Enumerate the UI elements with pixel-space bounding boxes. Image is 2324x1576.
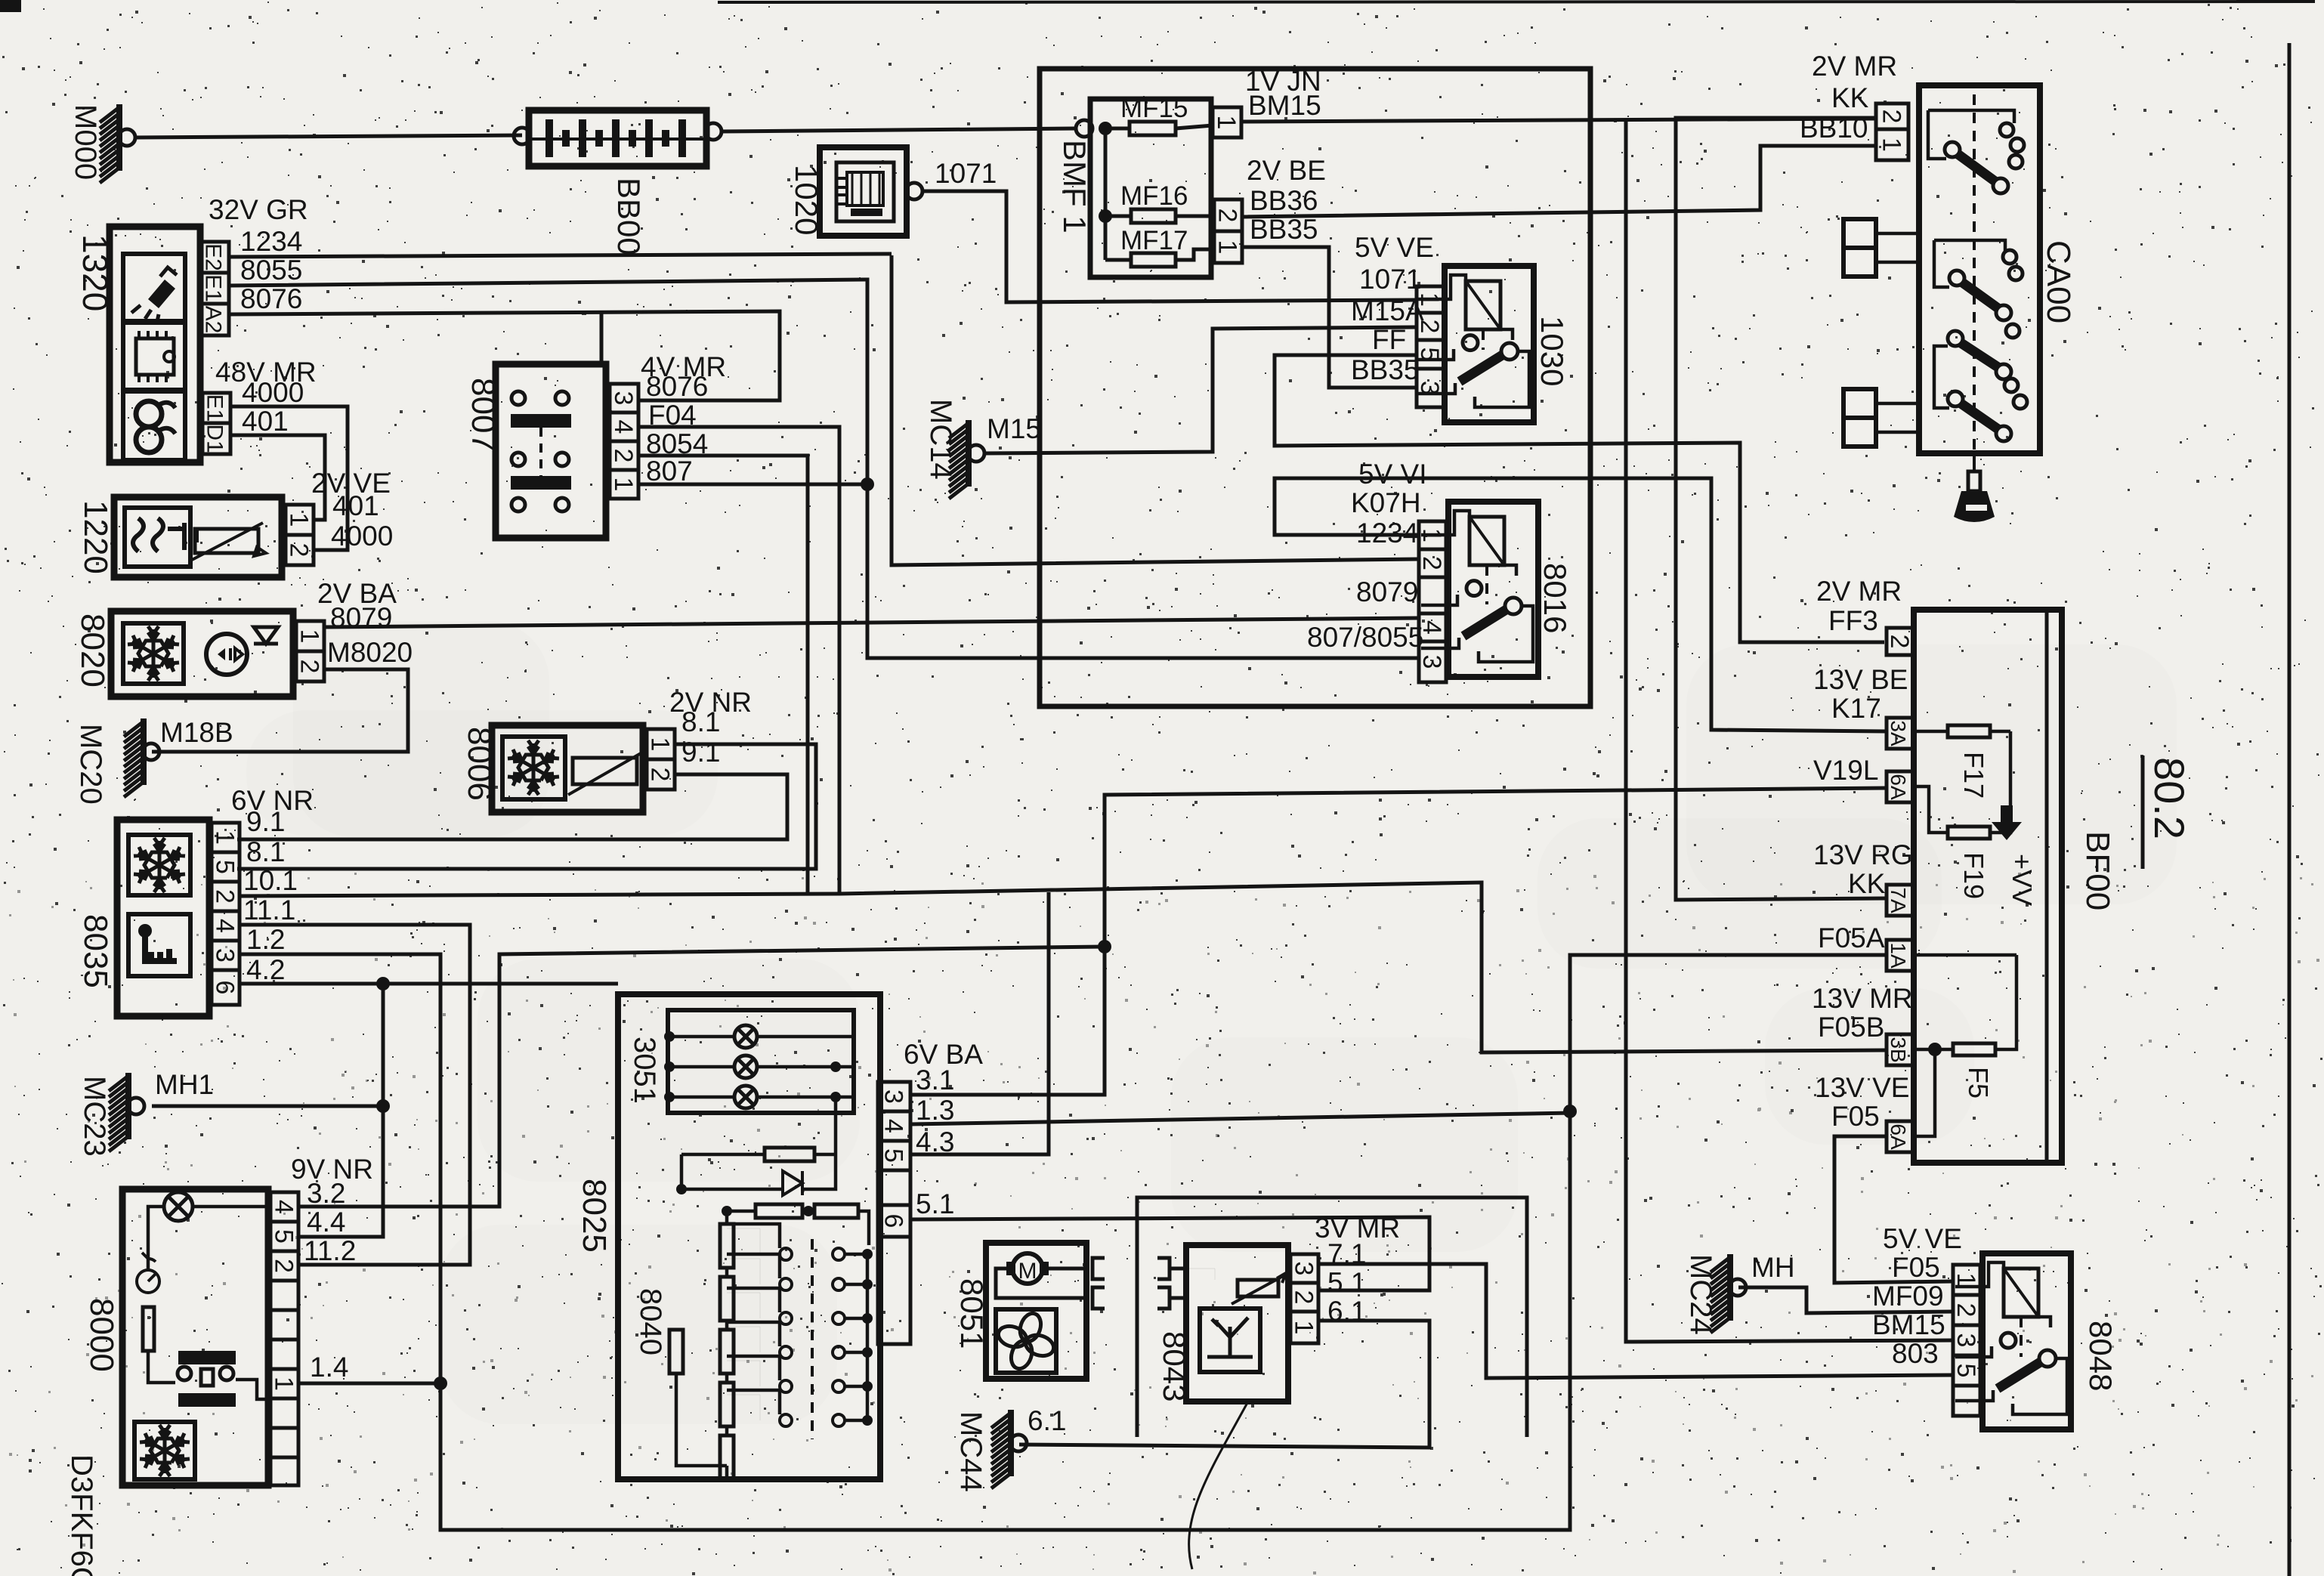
label F05A — [1818, 922, 1885, 953]
connector pins 4 5 2 1 of 8000 — [270, 1192, 299, 1485]
svg-text:5V VE: 5V VE — [1355, 232, 1434, 263]
svg-text:2: 2 — [1213, 209, 1242, 223]
label MC44 — [954, 1411, 987, 1492]
blower motor 8051 — [986, 1243, 1089, 1379]
svg-text:F05B: F05B — [1818, 1012, 1884, 1043]
fuse holder box in BMF1 — [1090, 99, 1211, 277]
svg-text:13V BE: 13V BE — [1813, 664, 1908, 695]
ignition switch CA00 — [1919, 85, 2040, 453]
svg-text:401: 401 — [332, 490, 379, 521]
svg-text:F05: F05 — [1892, 1252, 1940, 1283]
battery BB00 — [514, 110, 722, 166]
svg-text:1: 1 — [1213, 240, 1242, 255]
svg-text:BM15: BM15 — [1872, 1309, 1945, 1340]
relay 1030 connector pins 1 2 5 3 — [1415, 286, 1444, 407]
svg-text:4000: 4000 — [242, 377, 304, 408]
wire 807 from 8007 pin 1 to junction — [638, 483, 867, 487]
svg-text:MF15: MF15 — [1120, 94, 1188, 123]
svg-text:KK: KK — [1848, 868, 1886, 899]
svg-text:807: 807 — [646, 456, 693, 487]
svg-text:F19: F19 — [1958, 852, 1989, 899]
fuse box BMF1 outer box — [1040, 69, 1590, 706]
svg-text:2V MR: 2V MR — [1816, 576, 1902, 607]
svg-text:8006: 8006 — [461, 727, 498, 801]
svg-text:1: 1 — [1877, 138, 1906, 152]
svg-text:M18B: M18B — [160, 717, 233, 748]
svg-text:803: 803 — [1892, 1338, 1939, 1369]
wire 4.2 from 8035 pin 6 to 8025 and down to 4.4 — [240, 977, 618, 1237]
svg-text:1: 1 — [270, 1377, 298, 1391]
svg-text:CA00: CA00 — [2040, 240, 2077, 323]
svg-text:8.1: 8.1 — [246, 836, 285, 867]
labels 1V JN BM15 — [1245, 66, 1321, 121]
svg-text:8000: 8000 — [83, 1298, 120, 1372]
svg-text:1: 1 — [609, 477, 638, 492]
svg-text:MC24: MC24 — [1684, 1254, 1717, 1335]
svg-text:32V GR: 32V GR — [209, 194, 308, 225]
svg-text:BF00: BF00 — [2079, 831, 2116, 910]
sheet number 80.2 — [2143, 756, 2193, 869]
label MC20 — [74, 724, 107, 805]
svg-text:1030: 1030 — [1534, 316, 1570, 386]
svg-text:F05A: F05A — [1818, 922, 1885, 953]
svg-text:8020: 8020 — [74, 613, 111, 688]
connector pins 3 4 5 6 of 8025 — [878, 1082, 910, 1344]
ground MC24 with node MH — [1711, 1252, 1795, 1333]
svg-text:80.2: 80.2 — [2146, 757, 2193, 839]
connector pins 3 2 1 of 8043 — [1290, 1254, 1319, 1343]
fuse unit BF00 box — [1914, 610, 2062, 1163]
svg-text:M15A: M15A — [1351, 295, 1424, 326]
wire 4.3 from 8025 pin 5 — [910, 892, 1049, 1154]
wire F05 from BF00 pin 6A to 8048 pin 1 — [1834, 1136, 1953, 1283]
svg-text:1: 1 — [285, 513, 314, 527]
relay box 8007 — [496, 364, 606, 538]
drawing code D3FKF6C — [65, 1454, 98, 1576]
pin 6A V19L of BF00 — [1887, 771, 1914, 802]
wire 3.2 from 8000 pin 4 to junction with V19L line — [298, 940, 1111, 1207]
svg-text:MF09: MF09 — [1872, 1281, 1944, 1312]
svg-text:MH1: MH1 — [155, 1069, 214, 1100]
page border right — [2236, 0, 2312, 1576]
relay 8016 connector pins 1 2 4 3 — [1417, 521, 1446, 682]
svg-text:6A: 6A — [1887, 774, 1910, 800]
wire 9.1 from 8006 pin 2 to 8035 pin 1 — [237, 774, 787, 839]
wire MH1 to junction — [152, 1105, 383, 1108]
svg-text:4.4: 4.4 — [307, 1207, 345, 1238]
svg-text:M15: M15 — [987, 413, 1041, 444]
svg-text:1.2: 1.2 — [246, 924, 285, 955]
svg-text:2: 2 — [211, 889, 240, 904]
wire 1.2 from 8035 pin 3 to 8000 pin 1 1.4 and bottom bus — [240, 954, 1887, 1530]
svg-text:4: 4 — [211, 919, 240, 933]
wire 1.3 from 8025 pin 4 to junction on 2078 bus — [910, 1113, 1572, 1124]
labels 13V RG KK — [1813, 839, 1913, 899]
+VV feed arrow inside BF00 — [1992, 805, 2038, 906]
connector pin 1 BM15 of BMF1 — [1212, 107, 1241, 138]
svg-text:+VV: +VV — [2007, 854, 2038, 906]
svg-text:1A: 1A — [1887, 942, 1910, 969]
label MC24 — [1684, 1254, 1717, 1335]
resistor unit 8043 — [1186, 1245, 1288, 1401]
fuse MF16 — [1120, 181, 1214, 223]
labels 6V NR 9.1 8.1 10.1 11.1 1.2 4.2 at 8035 — [231, 785, 314, 985]
wire 8.1 from 8006 pin 1 to 8035 pin 5 — [237, 744, 816, 869]
svg-text:8040: 8040 — [634, 1288, 667, 1355]
svg-text:4: 4 — [270, 1200, 298, 1214]
svg-text:8055: 8055 — [240, 255, 302, 286]
connector pins 2 1 BB36 BB35 of BMF1 — [1213, 199, 1243, 263]
svg-text:E1: E1 — [202, 394, 227, 422]
svg-text:MC44: MC44 — [954, 1411, 987, 1492]
labels 48V MR 4000 401 — [215, 357, 317, 437]
svg-text:8025: 8025 — [576, 1179, 613, 1253]
svg-text:5V VE: 5V VE — [1883, 1223, 1962, 1254]
svg-text:8.1: 8.1 — [681, 706, 720, 737]
control unit 8035 — [117, 820, 209, 1016]
svg-text:MH: MH — [1751, 1252, 1795, 1283]
svg-text:MF17: MF17 — [1120, 226, 1188, 255]
label 1220 — [77, 500, 114, 574]
wire M8020 from 8020 to ground MC20 — [152, 669, 408, 752]
svg-text:F17: F17 — [1958, 752, 1989, 799]
labels 5V VE 1071 M15A FF BB35 at relay 1030 — [1351, 232, 1434, 385]
svg-text:2: 2 — [609, 449, 638, 463]
wire BB00 to BMF1 — [722, 128, 1076, 131]
svg-text:8035: 8035 — [77, 914, 114, 988]
svg-text:D1: D1 — [202, 424, 227, 453]
label MC23 — [78, 1076, 111, 1157]
svg-text:MC23: MC23 — [78, 1076, 111, 1157]
svg-text:1.4: 1.4 — [310, 1352, 348, 1383]
ignition switch CA00 connector pins 2 1 — [1876, 104, 1908, 160]
scan pen stroke artifact — [1189, 1401, 1248, 1569]
svg-text:8048: 8048 — [2083, 1321, 2118, 1391]
svg-text:5: 5 — [1952, 1364, 1980, 1378]
evaporator sensor 8006 — [492, 725, 643, 812]
wire 1071 from 1020 to relay 1030 pin 1 — [922, 191, 1417, 302]
wire BB35 to relay 1030 pin 3 — [1242, 247, 1417, 388]
svg-text:8016: 8016 — [1537, 563, 1573, 633]
wire 4.4 from 8000 pin 5 to junction — [298, 1236, 383, 1238]
connector hooks between 8051 and 8043 — [1092, 1258, 1186, 1309]
wire MH from ground MC24 to 8048 pin 2 MF09 — [1738, 1287, 1953, 1313]
wire K07H from 8016 pin 1 to BF00 pin 3A K17 — [1275, 478, 1887, 731]
ground MC20 with node M18B — [124, 717, 233, 797]
svg-text:K07H: K07H — [1351, 487, 1421, 518]
label 8006 — [461, 727, 498, 801]
svg-text:MC20: MC20 — [74, 724, 107, 805]
labels 2V MR FF3 — [1816, 576, 1902, 636]
svg-text:BM15: BM15 — [1248, 90, 1321, 121]
connector pins 3 4 2 1 of 8007 — [609, 384, 638, 499]
svg-text:11.1: 11.1 — [243, 895, 295, 926]
svg-text:807/8055: 807/8055 — [1307, 622, 1423, 653]
svg-text:3: 3 — [1952, 1333, 1980, 1348]
svg-text:M: M — [1018, 1259, 1037, 1284]
labels 13V MR F05B — [1812, 983, 1913, 1043]
compressor clutch 8020 — [111, 611, 293, 697]
svg-text:2: 2 — [295, 660, 324, 674]
label 1020 — [789, 165, 824, 235]
blower resistor unit 8025 box — [618, 994, 880, 1479]
svg-text:2: 2 — [1417, 556, 1446, 570]
svg-text:9.1: 9.1 — [246, 806, 285, 837]
ECU 1320 — [110, 227, 200, 462]
svg-text:1: 1 — [211, 830, 240, 845]
svg-text:K17: K17 — [1831, 693, 1881, 724]
svg-text:401: 401 — [242, 406, 289, 437]
pin 3A K17 of BF00 — [1887, 718, 1914, 749]
connector pins E2 E1 A2 of 1320 — [201, 242, 230, 335]
wire 1.4 from 8000 pin 1 to junction — [298, 1382, 440, 1386]
fuse MF17 — [1120, 226, 1214, 267]
control panel 8000 — [122, 1189, 270, 1485]
svg-text:4.2: 4.2 — [246, 954, 285, 985]
label CA00 — [2040, 240, 2077, 323]
labels 5V VI K07H 1234 8079 807/8055 at relay 8016 — [1307, 459, 1427, 653]
wire V19L from BF00 pin 6A down to 8025 pin 3 wire 3.1 — [910, 788, 1887, 1095]
label BB00 — [611, 178, 647, 255]
connector pins 1 2 of 8006 — [646, 729, 675, 790]
relay 1030 — [1417, 266, 1534, 422]
wire 11.1 from 8035 pin 4 to 8000 pin 2 11.2 — [240, 925, 470, 1265]
svg-text:5: 5 — [879, 1148, 908, 1163]
label 3051 — [628, 1037, 661, 1104]
svg-text:1.3: 1.3 — [916, 1095, 954, 1126]
pin 7A KK of BF00 — [1887, 885, 1914, 916]
svg-text:3: 3 — [1417, 655, 1446, 669]
wire 7.1 from 8043 pin 3 to 8048 pin 5 803 — [1318, 1264, 1953, 1378]
svg-text:1020: 1020 — [789, 165, 824, 235]
wire M000 to battery BB00 — [135, 135, 522, 138]
svg-text:2: 2 — [646, 768, 675, 782]
resistor ladder 8040 in 8025 — [669, 1097, 873, 1479]
svg-text:MC14: MC14 — [924, 399, 957, 480]
label 1071 at 1020 — [935, 158, 997, 189]
label 8025 — [576, 1179, 613, 1253]
svg-text:8043: 8043 — [1157, 1331, 1192, 1401]
svg-text:F05: F05 — [1831, 1101, 1880, 1132]
svg-text:1: 1 — [1212, 116, 1241, 130]
wire KK from CA00 pin 2 to BF00 pin 7A — [1676, 118, 1887, 900]
svg-text:MF16: MF16 — [1120, 181, 1188, 211]
svg-text:7A: 7A — [1887, 887, 1910, 913]
ignition module 1020 — [820, 147, 922, 236]
svg-text:M8020: M8020 — [327, 637, 413, 668]
label 1320 — [76, 234, 115, 311]
svg-text:3.2: 3.2 — [307, 1178, 345, 1209]
svg-text:1220: 1220 — [77, 500, 114, 574]
label 8020 — [74, 613, 111, 688]
svg-text:M000: M000 — [69, 104, 102, 180]
wire FF from relay 1030 pin 5 to BF00 pin 2 FF3 — [1275, 355, 1884, 642]
svg-text:2: 2 — [285, 543, 314, 558]
lamp cluster 3051 in 8025 — [664, 1010, 854, 1113]
labels 2V NR 8.1 9.1 at 8006 — [669, 687, 752, 768]
svg-text:5: 5 — [211, 860, 240, 874]
svg-text:8076: 8076 — [646, 371, 708, 402]
label 8043 — [1157, 1331, 1192, 1401]
pin 6A F05 of BF00 — [1887, 1121, 1914, 1152]
svg-text:D3FKF6C: D3FKF6C — [65, 1454, 98, 1576]
svg-text:2: 2 — [270, 1259, 298, 1273]
svg-text:10.1: 10.1 — [243, 865, 298, 896]
svg-text:3: 3 — [879, 1089, 908, 1104]
labels 9V NR 3.2 4.4 11.2 1.4 at 8000 — [291, 1154, 373, 1383]
wire 8076 from 1320 to 8007 pin 3 — [229, 311, 780, 400]
svg-text:FF3: FF3 — [1828, 605, 1878, 636]
connector pins E1 D1 of 1320 — [202, 393, 231, 454]
wire 11.2 from 8000 pin 2 — [298, 1264, 470, 1265]
wire 8079 from 8020 to 8016 pin 4 — [324, 618, 1419, 627]
labels 13V BE K17 — [1813, 664, 1908, 724]
wire BB36 to CA00 pin 1 BB10 — [1242, 146, 1876, 217]
svg-text:1320: 1320 — [76, 234, 115, 311]
wire 4000 from 1320 to 1220 pin 2 — [229, 406, 348, 550]
fuse MF15 — [1120, 94, 1213, 135]
svg-text:2: 2 — [1885, 635, 1914, 649]
label BMF1 — [1057, 140, 1092, 233]
svg-text:13V MR: 13V MR — [1812, 983, 1913, 1014]
svg-text:2V BE: 2V BE — [1247, 155, 1326, 186]
pin 2 FF3 of BF00 — [1885, 628, 1914, 655]
label 8040 — [634, 1288, 667, 1355]
svg-text:8007: 8007 — [465, 378, 502, 452]
connector pins 1 2 of 8020 — [295, 621, 325, 681]
svg-text:3: 3 — [1290, 1262, 1318, 1276]
fuse F17 inside BF00 — [1914, 725, 2010, 799]
wire M15A from ground MC14 to relay 1030 pin 2 — [984, 327, 1417, 453]
svg-text:8079: 8079 — [1356, 576, 1418, 607]
svg-text:1: 1 — [295, 629, 324, 644]
svg-text:1234: 1234 — [240, 226, 302, 257]
wire 1234 from 1320 — [229, 254, 892, 257]
label BF00 — [2079, 831, 2116, 910]
ground M000 — [69, 104, 135, 183]
svg-text:3.1: 3.1 — [916, 1065, 954, 1095]
connector pins 1 5 2 4 3 6 of 8035 — [211, 823, 240, 1005]
ignition key symbol — [1954, 453, 1995, 522]
wire 8054 from 8007 pin 2 — [638, 456, 808, 894]
relay 8048 connector pins 1 2 3 5 — [1952, 1265, 1980, 1416]
svg-text:1071: 1071 — [935, 158, 997, 189]
svg-text:4: 4 — [609, 420, 638, 434]
fuse F19 inside BF00 — [1914, 731, 2010, 899]
wire 6.1 from 8043 pin 1 to ground MC44 — [1019, 1321, 1429, 1448]
ground MC44 with node 6.1 — [991, 1405, 1066, 1488]
svg-text:3: 3 — [609, 391, 638, 406]
svg-text:E1: E1 — [201, 274, 226, 302]
svg-text:3: 3 — [211, 948, 240, 963]
label 8035 — [77, 914, 114, 988]
svg-text:5: 5 — [270, 1229, 298, 1244]
svg-text:5.1: 5.1 — [1327, 1267, 1366, 1298]
labels 2V MR KK BB10 at CA00 — [1800, 51, 1897, 144]
aux connector blocks of CA00 — [1843, 219, 1919, 447]
wire F04 from 8007 pin 4 — [638, 427, 839, 894]
wire 8055 from 1320 to junction 807 — [229, 280, 867, 484]
feed terminal and bus inside BMF1 — [1076, 120, 1131, 260]
label 1030 — [1534, 316, 1570, 386]
svg-text:A2: A2 — [201, 306, 226, 334]
svg-text:5V VI: 5V VI — [1358, 459, 1427, 490]
heater sensor 1220 — [114, 497, 282, 577]
wire 1234 vertical from 1320 to 8016 pin 2 — [892, 255, 1419, 565]
relay 8048 — [1955, 1253, 2071, 1429]
svg-text:BB00: BB00 — [611, 178, 647, 255]
label 8000 — [83, 1298, 120, 1372]
labels 2V BA 8079 M8020 — [317, 578, 413, 668]
svg-text:13V RG: 13V RG — [1813, 839, 1913, 870]
svg-text:1: 1 — [1952, 1273, 1980, 1287]
labels 3V MR 7.1 5.1 6.1 at 8043 — [1315, 1213, 1400, 1327]
labels 2V BE BB36 BB35 — [1247, 155, 1326, 245]
svg-text:4000: 4000 — [331, 521, 393, 552]
svg-text:5.1: 5.1 — [916, 1188, 954, 1219]
svg-text:6: 6 — [879, 1214, 908, 1228]
svg-text:V19L: V19L — [1813, 755, 1878, 786]
svg-text:6A: 6A — [1887, 1123, 1910, 1150]
svg-text:3A: 3A — [1887, 720, 1910, 746]
svg-text:6.1: 6.1 — [1028, 1405, 1066, 1436]
svg-text:1: 1 — [1290, 1321, 1318, 1335]
svg-text:2V MR: 2V MR — [1812, 51, 1897, 82]
svg-text:BB35: BB35 — [1351, 354, 1420, 385]
pin 3B F05B of BF00 — [1887, 1034, 1914, 1065]
labels 5V VE F05 MF09 BM15 803 at 8048 — [1872, 1223, 1962, 1369]
wire 10.1 from 8035 pin 2 to BF00 pin 3B F05B — [240, 882, 1887, 1052]
wire 807/8055 to 8016 pin 3 — [861, 477, 1419, 658]
label 8051 — [954, 1278, 990, 1349]
labels 6V BA 3.1 1.3 4.3 5.1 at 8025 — [904, 1039, 983, 1219]
svg-text:2: 2 — [1952, 1303, 1980, 1318]
label V19L — [1813, 755, 1878, 786]
svg-text:BMF 1: BMF 1 — [1057, 140, 1092, 233]
svg-text:3B: 3B — [1887, 1037, 1910, 1062]
label 8048 — [2083, 1321, 2118, 1391]
svg-text:F5: F5 — [1963, 1067, 1994, 1099]
relay 8016 — [1421, 502, 1538, 677]
wire 5.1 from 8025 pin 6 to 8043 pin 2 — [910, 1217, 1429, 1290]
svg-text:13V VE: 13V VE — [1815, 1072, 1909, 1103]
ground MC23 with node MH1 — [109, 1069, 214, 1151]
svg-text:6: 6 — [211, 981, 240, 995]
fuse F5 inside BF00 — [1914, 955, 2017, 1136]
svg-text:9.1: 9.1 — [681, 737, 720, 768]
label MC14 — [924, 399, 957, 480]
connector pins 1 2 of 1220 — [285, 505, 314, 565]
svg-text:8076: 8076 — [240, 283, 302, 314]
wire 401 from 1320 to 1220 pin 1 — [229, 435, 325, 520]
svg-text:8051: 8051 — [954, 1278, 990, 1349]
svg-text:3051: 3051 — [628, 1037, 661, 1104]
wire BM15 bus to 8048 pin 3 — [1241, 119, 1953, 1342]
label 8016 — [1537, 563, 1573, 633]
svg-text:KK: KK — [1831, 82, 1869, 113]
labels 2V VE 401 4000 at 1220 — [311, 468, 393, 552]
svg-text:2: 2 — [1290, 1290, 1318, 1305]
svg-text:1071: 1071 — [1359, 264, 1421, 295]
label 8007 — [465, 378, 502, 452]
ground MC14 with node M15 — [949, 413, 1041, 499]
svg-text:E2: E2 — [201, 243, 226, 271]
labels 32V GR 1234 8055 8076 — [209, 194, 308, 314]
svg-text:11.2: 11.2 — [304, 1235, 356, 1266]
loop box 3V MR around 8043 — [1137, 1197, 1527, 1437]
scan top edge artifact — [0, 0, 2315, 12]
pin 1A F05A of BF00 — [1887, 940, 1914, 971]
